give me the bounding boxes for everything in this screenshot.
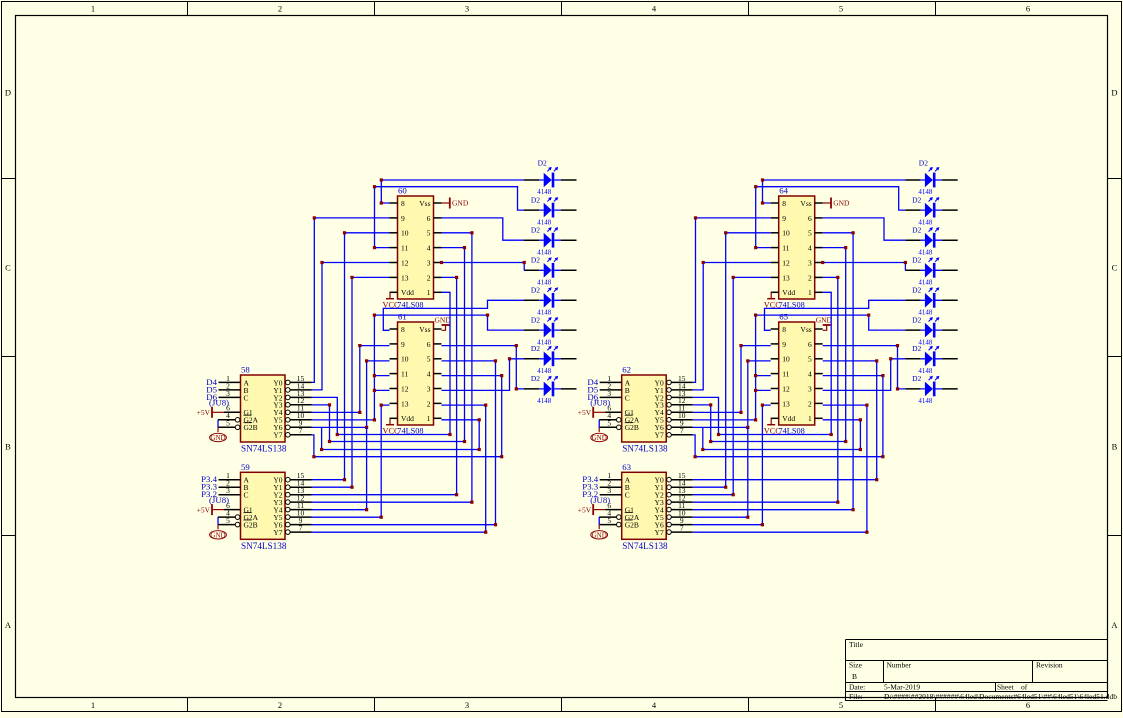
wire net: U64 pin10 to U63 Y1 — [693, 233, 771, 487]
svg-text:Sheet: Sheet — [997, 683, 1015, 692]
svg-text:B: B — [1112, 442, 1118, 452]
svg-text:Revision: Revision — [1036, 661, 1063, 670]
svg-text:6: 6 — [1026, 700, 1030, 710]
svg-text:C: C — [1112, 263, 1118, 273]
svg-text:58: 58 — [241, 365, 250, 375]
wire net: U65 pin13 to U63 Y6 — [693, 405, 771, 525]
svg-text:63: 63 — [622, 462, 631, 472]
svg-text:2: 2 — [278, 4, 282, 14]
svg-text:2: 2 — [278, 700, 282, 710]
svg-text:65: 65 — [779, 312, 788, 322]
svg-text:A: A — [1111, 620, 1118, 630]
wire net: U60 pin2 to U59 Y2 — [312, 277, 457, 494]
svg-text:61: 61 — [398, 312, 407, 322]
svg-text:59: 59 — [241, 462, 250, 472]
wire net: U64 pin2 to U63 Y3 — [693, 277, 838, 502]
svg-text:64: 64 — [779, 186, 788, 196]
wire net: U60 pin5 to U59 Y3 — [312, 233, 472, 502]
svg-text:Date:: Date: — [849, 683, 865, 692]
svg-text:5: 5 — [839, 700, 843, 710]
svg-text:3: 3 — [465, 4, 469, 14]
wire net: U61 pin5 to U59 Y6 — [312, 361, 496, 525]
svg-text:1: 1 — [91, 4, 95, 14]
svg-text:3: 3 — [465, 700, 469, 710]
svg-text:5-Mar-2019: 5-Mar-2019 — [884, 683, 920, 692]
right half circuit (U62,U63,U64,U65 + 8 LEDs), copy at +381.2px — [578, 159, 958, 551]
svg-text:D: D — [5, 88, 11, 98]
svg-text:62: 62 — [622, 365, 631, 375]
wire net: U60 pin10 to U59 Y0 — [312, 233, 390, 480]
svg-text:B: B — [852, 672, 857, 681]
title block — [846, 640, 1108, 701]
svg-text:1: 1 — [91, 700, 95, 710]
svg-text:D:\####\##2018\######\64led\Do: D:\####\##2018\######\64led\Documents#64… — [884, 692, 1117, 701]
wire net: U61 pin10 riser to U59 Y4 — [312, 427, 367, 509]
wire net: U60 pin13 to U59 Y1 — [312, 277, 390, 487]
svg-text:D: D — [1111, 88, 1117, 98]
wire net: U61 pin2 to U59 Y7 — [312, 405, 486, 532]
svg-text:A: A — [5, 620, 12, 630]
wire net: U65 pin2 to U63 Y7 — [693, 405, 867, 532]
svg-text:of: of — [1021, 683, 1028, 692]
svg-text:File:: File: — [849, 692, 863, 701]
wire net: U65 pin10 riser to U63 Y5 — [693, 427, 748, 517]
svg-text:6: 6 — [1026, 4, 1030, 14]
left half circuit (U58,U59,U60,U61 + 8 LEDs) — [197, 159, 577, 551]
svg-text:Number: Number — [887, 661, 912, 670]
svg-text:B: B — [5, 442, 11, 452]
svg-text:Size: Size — [849, 661, 863, 670]
wire net: U64 pin5 to U63 Y4 — [693, 233, 853, 510]
svg-text:5: 5 — [839, 4, 843, 14]
svg-text:C: C — [5, 263, 11, 273]
svg-text:Title: Title — [849, 640, 864, 649]
wire net: U61 pin13 to U59 Y5 — [312, 405, 390, 517]
wire net: U65 pin5 to U63 Y0 — [693, 361, 877, 480]
svg-text:60: 60 — [398, 186, 407, 196]
wire net: U64 pin13 to U63 Y2 — [693, 277, 771, 494]
